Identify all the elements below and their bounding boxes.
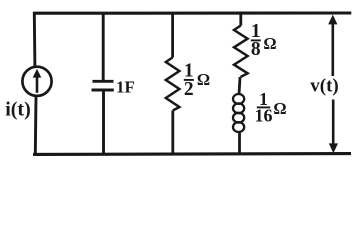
wire bottom rail — [33, 152, 351, 156]
wire capacitor branch lower — [102, 90, 105, 155]
current source I1 — [22, 67, 51, 96]
label 1/16 ohm — [255, 89, 287, 126]
wire top rail — [33, 11, 351, 14]
svg-text:8: 8 — [251, 39, 261, 60]
v(t) arrow upper shaft with arrowhead — [328, 15, 337, 76]
wire resistor R1 branch upper — [171, 13, 174, 58]
label 1/8 ohm — [251, 21, 277, 60]
wire resistor R1 branch lower — [171, 111, 174, 156]
svg-text:i(t): i(t) — [5, 99, 31, 121]
wire L1 branch lower — [238, 132, 241, 156]
wire left vertical lower — [34, 96, 38, 155]
svg-text:Ω: Ω — [263, 34, 276, 53]
resistor R2 (1/8 ohm) zigzag — [234, 26, 248, 78]
svg-text:v(t): v(t) — [310, 76, 338, 97]
v(t) arrow lower shaft with arrowhead — [329, 100, 338, 154]
svg-text:Ω: Ω — [273, 99, 286, 118]
label 1/2 ohm — [184, 61, 210, 101]
label 1F — [116, 78, 135, 97]
inductor L1 (1/16 ohm) coil — [233, 94, 244, 132]
wire capacitor branch upper — [102, 13, 105, 81]
svg-text:Ω: Ω — [197, 70, 210, 89]
wire R2 to L1 — [239, 77, 240, 95]
resistor R1 (1/2 ohm) zigzag — [166, 58, 180, 111]
svg-text:2: 2 — [184, 79, 194, 100]
capacitor C1 — [92, 81, 114, 90]
svg-text:1F: 1F — [116, 78, 135, 97]
wire left vertical — [33, 12, 37, 67]
wire R2 branch upper — [239, 13, 242, 26]
svg-text:16: 16 — [255, 105, 273, 125]
label i(t) — [5, 99, 31, 121]
label v(t) — [310, 76, 338, 97]
